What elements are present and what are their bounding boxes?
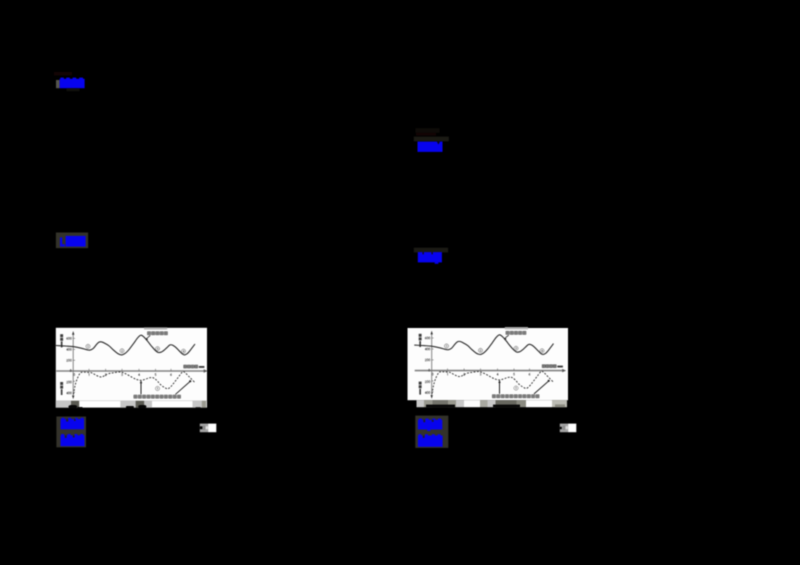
faint text smudge above highlight C (416, 128, 440, 133)
chart 2 bottom highlight strip (417, 400, 568, 407)
chart 1 white background (56, 328, 207, 401)
bottom-right blue link line 1 (418, 419, 442, 432)
answer link text D (blue) (418, 252, 442, 264)
answer highlight C (blue) (418, 142, 443, 152)
chart 1 top gray artifact bar (144, 327, 167, 329)
bottom-right dark highlight panel (415, 416, 448, 448)
chart 1 plot (56, 331, 208, 399)
gray mark left of answer highlight A (56, 80, 60, 88)
dark highlight band D (414, 248, 448, 253)
left white box with glyph (200, 424, 217, 433)
dark highlight band C (414, 137, 449, 142)
answer link text B (blue) (60, 236, 86, 247)
black glyph bottoms on band (68, 405, 77, 408)
faint text smudge above answer highlight A (54, 72, 72, 75)
chart 2 white background (408, 328, 569, 400)
right white box with glyph (560, 424, 577, 433)
chart 2 plot (414, 331, 566, 399)
answer highlight A (blue) (60, 78, 85, 92)
chart 1 bottom text band (highlight runs on white) (56, 401, 207, 409)
chart 2 top gray artifact bar (505, 327, 528, 329)
bottom-left blue link line 2 (61, 434, 85, 446)
bottom-left dark highlight panel (56, 417, 86, 448)
bottom-left blue link line 1 (61, 418, 85, 430)
dark highlight panel B (56, 233, 88, 249)
bottom-right blue link line 2 (418, 434, 443, 447)
